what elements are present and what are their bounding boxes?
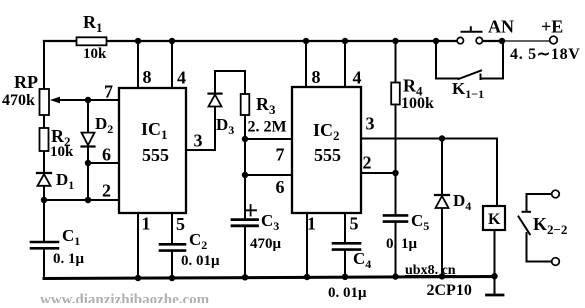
wire IC1 pin 5 bbox=[171, 213, 173, 278]
diode D4 bbox=[435, 139, 449, 277]
svg-text:100k: 100k bbox=[401, 95, 434, 112]
svg-text:2. 2M: 2. 2M bbox=[248, 119, 287, 136]
wire IC1 pin 3 output bbox=[186, 71, 215, 150]
svg-text:1: 1 bbox=[307, 214, 316, 234]
junction dots D2 branch bbox=[85, 97, 91, 103]
junction dots top rail bbox=[135, 38, 141, 44]
svg-text:4: 4 bbox=[177, 68, 186, 88]
svg-text:5: 5 bbox=[350, 214, 359, 234]
svg-text:470μ: 470μ bbox=[250, 236, 282, 252]
svg-text:0. 1μ: 0. 1μ bbox=[53, 251, 85, 267]
svg-text:8: 8 bbox=[312, 67, 321, 87]
junction dots bottom rail bbox=[135, 275, 141, 281]
wire IC1 pin 2 bbox=[44, 199, 119, 201]
switch K1-1 relay contact bbox=[436, 41, 503, 79]
wire bracket D3-R3 top bbox=[215, 70, 245, 72]
svg-text:0. 01μ: 0. 01μ bbox=[181, 253, 220, 269]
svg-text:0. 1μ: 0. 1μ bbox=[386, 236, 418, 252]
svg-text:5: 5 bbox=[176, 214, 185, 234]
resistor RP (potentiometer) bbox=[40, 89, 50, 115]
wire +E lead bbox=[504, 40, 550, 42]
svg-text:2CP10: 2CP10 bbox=[427, 282, 472, 299]
resistor R2 bbox=[40, 128, 49, 151]
timer IC2 555 box bbox=[292, 87, 361, 213]
wire IC2 pin 7 bbox=[245, 138, 292, 140]
wire top VCC rail bbox=[44, 40, 502, 42]
wire IC2 pin 2 bbox=[361, 172, 396, 174]
wire IC2 pin 3 output to relay bbox=[361, 139, 497, 207]
svg-text:3: 3 bbox=[366, 114, 375, 134]
svg-text:7: 7 bbox=[276, 145, 285, 165]
wire C3 branch bbox=[244, 175, 246, 277]
svg-text:K: K bbox=[488, 211, 501, 228]
svg-text:www.dianzizhibaozhe.com: www.dianzizhibaozhe.com bbox=[40, 292, 210, 303]
wire IC2 pin 4 bbox=[344, 41, 346, 87]
svg-text:3: 3 bbox=[194, 131, 203, 151]
wire bottom ground rail bbox=[44, 277, 495, 279]
svg-text:4. 5∼18V: 4. 5∼18V bbox=[510, 46, 581, 63]
diode D1 bbox=[37, 173, 51, 186]
wire node R3/pin7 down to pin6 bbox=[244, 139, 246, 175]
wire IC2 pin 1 bbox=[306, 213, 308, 277]
wire IC1 pin 4 bbox=[171, 41, 173, 88]
svg-text:555: 555 bbox=[314, 145, 341, 165]
resistor R1 bbox=[77, 37, 107, 45]
capacitor C2 bbox=[160, 244, 185, 250]
svg-text:+E: +E bbox=[541, 17, 563, 37]
diode D3 bbox=[209, 94, 222, 107]
wire IC1 pin 8 bbox=[137, 41, 139, 88]
junction dots R3 node bbox=[242, 136, 248, 142]
svg-text:2: 2 bbox=[102, 181, 111, 201]
svg-text:0. 01μ: 0. 01μ bbox=[328, 285, 367, 301]
svg-text:RP: RP bbox=[14, 72, 38, 92]
wire IC2 pin 5 bbox=[344, 213, 346, 277]
svg-text:1: 1 bbox=[142, 214, 151, 234]
capacitor C3 polarized bbox=[232, 205, 258, 226]
svg-text:6: 6 bbox=[102, 145, 111, 165]
relay K bbox=[483, 206, 505, 277]
wire IC2 pin 8 bbox=[305, 41, 307, 87]
wire left branch vertical bbox=[43, 41, 45, 279]
capacitor C5 bbox=[384, 215, 407, 276]
svg-text:10k: 10k bbox=[83, 46, 107, 62]
capacitor C1 bbox=[31, 242, 58, 248]
wire RP wiper arrow from IC1 pin 7 bbox=[50, 97, 119, 104]
svg-text:555: 555 bbox=[142, 145, 169, 165]
wire IC1 pin 6 bbox=[88, 162, 119, 164]
diode D2 bbox=[82, 133, 95, 147]
wire IC1 pin 1 bbox=[137, 213, 139, 278]
svg-text:7: 7 bbox=[104, 82, 113, 102]
op-amp/timer IC1 555 box bbox=[119, 88, 186, 213]
wire D2 branch vertical bbox=[87, 100, 89, 200]
svg-text:4: 4 bbox=[353, 68, 362, 88]
wire IC2 pin 6 bbox=[245, 174, 292, 176]
svg-text:470k: 470k bbox=[2, 92, 35, 109]
terminal +E bbox=[550, 36, 558, 44]
switch AN pushbutton bbox=[457, 27, 482, 44]
svg-text:8: 8 bbox=[143, 67, 152, 87]
svg-text:10k: 10k bbox=[50, 144, 74, 160]
svg-text:6: 6 bbox=[276, 177, 285, 197]
svg-text:AN: AN bbox=[488, 17, 514, 37]
junction dots R4/D4 node bbox=[392, 170, 398, 176]
ground bbox=[487, 277, 504, 296]
switch K2-2 relay contact bbox=[519, 190, 560, 265]
svg-text:2: 2 bbox=[363, 153, 372, 173]
resistor R3 bbox=[241, 71, 250, 139]
capacitor C4 bbox=[333, 243, 360, 249]
resistor R4 bbox=[391, 41, 400, 216]
svg-text:ubx8. cn: ubx8. cn bbox=[405, 263, 456, 278]
